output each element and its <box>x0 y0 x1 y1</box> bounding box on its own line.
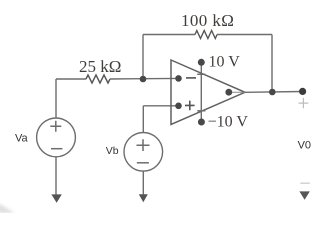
svg-text:10 V: 10 V <box>209 54 241 71</box>
wire non-inverting input horizontal <box>143 105 178 107</box>
wire output horizontal <box>245 91 303 94</box>
ground arrow under Va <box>51 194 61 202</box>
op-amp plus input dot <box>175 103 182 110</box>
svg-text:V0: V0 <box>298 140 311 152</box>
junction dot output feedback node <box>269 89 276 96</box>
source Va plus sign <box>50 121 61 132</box>
svg-text:Vb: Vb <box>106 145 119 157</box>
resistor R2 100 kOhm zigzag <box>195 31 217 39</box>
wire resistor to op-amp minus input <box>110 77 179 80</box>
svg-text:−10 V: −10 V <box>208 114 249 131</box>
wire feedback top horizontal left segment <box>143 34 195 36</box>
source Vb circle <box>124 133 163 172</box>
wire feedback left vertical <box>142 35 144 80</box>
resistor R1 25 kOhm zigzag <box>86 75 110 83</box>
op-amp minus input dot <box>175 75 182 82</box>
positive supply dot <box>198 59 205 66</box>
power supply tick top <box>197 73 205 75</box>
svg-text:100 kΩ: 100 kΩ <box>181 11 234 30</box>
source Vb minus sign <box>137 162 149 164</box>
output terminal dot <box>299 88 306 95</box>
wire inverting input horizontal <box>56 78 86 80</box>
wire Vb bottom vertical <box>142 171 144 194</box>
source Va minus sign <box>51 148 62 150</box>
wire Va bottom vertical <box>55 157 57 195</box>
power supply tick bottom <box>197 110 205 112</box>
wire Vb top vertical <box>142 106 144 133</box>
source Va circle <box>37 118 76 157</box>
op-amp output dot <box>225 89 232 96</box>
wire Va top vertical <box>55 79 57 118</box>
op-amp U1 triangle <box>171 60 245 125</box>
source Vb plus sign <box>137 139 150 151</box>
wire feedback right vertical <box>271 35 273 93</box>
negative supply dot <box>198 119 205 126</box>
wire output lead inside op-amp <box>229 91 245 93</box>
junction dot inverting node <box>140 76 147 83</box>
wire feedback top horizontal right segment <box>217 34 272 36</box>
output plus polarity mark <box>299 98 309 108</box>
op-amp minus input label <box>186 77 196 79</box>
op-amp plus input label <box>185 101 195 111</box>
svg-text:25 kΩ: 25 kΩ <box>79 57 121 76</box>
op-amp power supply vertical line <box>200 62 202 122</box>
svg-text:Va: Va <box>15 133 29 145</box>
ground marker at output <box>299 191 309 199</box>
scan smudge bottom left corner <box>0 203 15 213</box>
output minus polarity mark <box>300 182 309 184</box>
ground arrow under Vb <box>139 194 148 202</box>
